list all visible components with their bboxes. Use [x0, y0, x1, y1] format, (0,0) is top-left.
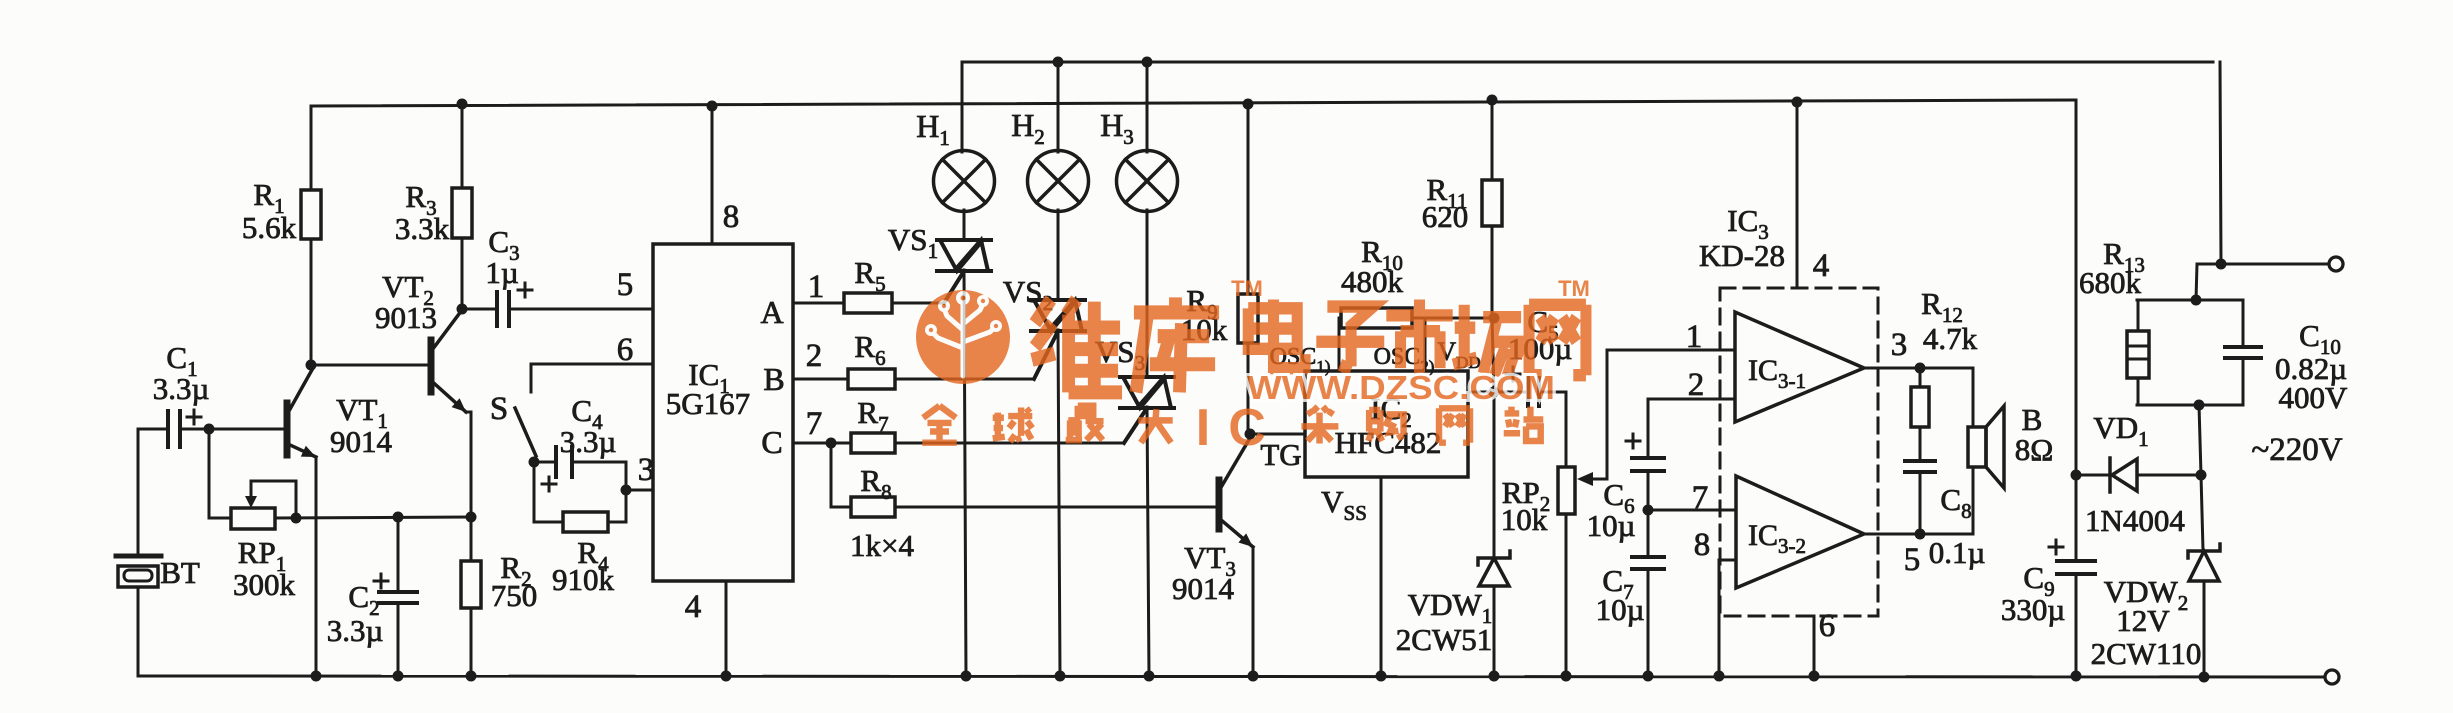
watermark char zi — [1316, 307, 1384, 370]
svg-text:1: 1 — [808, 269, 825, 305]
resistor R4 910k — [534, 512, 626, 532]
wire VDW2 top — [2201, 475, 2203, 550]
node H2 on AC rail — [1053, 57, 1064, 68]
wire VS1 to ground — [964, 270, 966, 676]
resistor R1 5.6k — [301, 106, 321, 365]
svg-text:7: 7 — [1692, 480, 1709, 516]
svg-text:TG: TG — [1260, 437, 1301, 472]
wire VS3 to ground — [1147, 407, 1149, 676]
svg-text:VS1: VS1 — [888, 222, 938, 263]
wire H3 to VS3 — [1146, 210, 1149, 377]
wire TG to IC2 — [1250, 433, 1305, 436]
resistor R8 — [831, 497, 1219, 517]
wire IC2 OSC1 stub — [1339, 318, 1341, 371]
node C2 top — [393, 512, 404, 523]
watermark char dian — [1248, 300, 1305, 369]
node pin7 branch — [826, 438, 837, 449]
node H3 on AC rail — [1142, 57, 1153, 68]
lamp H1 — [934, 151, 995, 212]
wire C4 left — [534, 461, 556, 464]
resistor R12 4.7k — [1911, 367, 1929, 461]
IC IC2 HFC482 box — [1305, 371, 1468, 477]
node VS2 ground — [1055, 671, 1066, 682]
capacitor C3 1u — [497, 283, 532, 326]
svg-text:1µ: 1µ — [485, 255, 518, 290]
wire C2 bottom — [397, 603, 400, 676]
wire IC3 pin8 to ground — [1719, 560, 1735, 676]
node R2 ground — [466, 671, 477, 682]
capacitor C7 10u — [1632, 557, 1664, 569]
svg-text:IC3-1: IC3-1 — [1748, 354, 1806, 393]
wire +12V riser — [2075, 100, 2078, 475]
wire IC2 OSC2 stub — [1424, 318, 1427, 371]
capacitor C4 3.3u — [542, 447, 572, 491]
wire VT1 collector node to VT2 base — [311, 364, 431, 367]
wire BT bottom to common rail — [137, 587, 140, 676]
watermark char wang2 — [1439, 408, 1470, 442]
wire VT2 collector to C3 — [462, 308, 497, 311]
resistor R13 680k — [2127, 300, 2149, 405]
lamp H3 — [1117, 151, 1178, 212]
IC IC3 KD-28 dashed box — [1720, 288, 1878, 616]
wire RP2 wiper to IC3 pin1 — [1607, 350, 1735, 479]
terminal AC bottom — [2325, 670, 2339, 684]
node VDW2 ground — [2199, 672, 2210, 683]
resistor R9 10k — [1238, 104, 1258, 434]
wire to top terminal — [2221, 263, 2329, 266]
svg-text:WWW.DZSC.COM: WWW.DZSC.COM — [1247, 369, 1555, 406]
wire AC rail down right — [2220, 62, 2221, 264]
wire pin3 output — [1864, 368, 1973, 427]
svg-text:750: 750 — [491, 578, 538, 613]
wire pin3 into IC1 — [626, 489, 653, 492]
capacitor C10 0.82u 400V — [2225, 347, 2261, 358]
watermark logo tree — [934, 305, 993, 376]
svg-text:C8: C8 — [1940, 482, 1971, 523]
svg-text:6: 6 — [617, 332, 634, 368]
node VT2 emitter R2 top — [466, 512, 477, 523]
svg-text:1k×4: 1k×4 — [850, 528, 914, 563]
wire C6 bottom to pin7 node — [1647, 471, 1650, 510]
node pin5 C8 — [1915, 529, 1926, 540]
svg-text:IC3-2: IC3-2 — [1748, 519, 1806, 558]
switch S — [515, 408, 536, 456]
node C6 C7 pin7 — [1643, 505, 1654, 516]
node R9 rail — [1243, 99, 1254, 110]
potentiometer RP2 10k — [1558, 467, 1607, 514]
watermark char quan — [922, 406, 956, 443]
wire BT top to C1 — [138, 429, 165, 556]
wire IC2 VSS to ground — [1380, 477, 1383, 676]
node R11 rail — [1487, 95, 1498, 106]
wire H1 drop from AC rail — [961, 62, 964, 152]
svg-text:5: 5 — [1904, 542, 1921, 578]
node R10 right on R11 line — [1489, 313, 1500, 324]
watermark logo disc — [916, 290, 1010, 384]
svg-text:4.7k: 4.7k — [1923, 321, 1978, 356]
terminal AC top — [2329, 257, 2343, 271]
svg-text:S: S — [490, 391, 508, 427]
capacitor C8 0.1u — [1905, 461, 1935, 472]
node RP1 wiper junction — [291, 513, 302, 524]
wire VD1 cathode to +12V line — [2076, 474, 2110, 477]
wire C7 top — [1647, 510, 1650, 557]
potentiometer RP1 — [231, 481, 296, 529]
svg-text:8Ω: 8Ω — [2015, 432, 2054, 467]
watermark char qiu — [993, 407, 1033, 441]
svg-text:VSS: VSS — [1321, 484, 1367, 525]
node IC1 pin8 rail — [707, 101, 718, 112]
svg-text:H3: H3 — [1100, 107, 1134, 149]
svg-text:3.3k: 3.3k — [395, 211, 450, 246]
wire VS2 to ground — [1058, 330, 1060, 676]
op-amp IC3-1 — [1735, 312, 1864, 422]
svg-text:7: 7 — [806, 406, 823, 442]
wire VT2 emitter down — [466, 412, 471, 517]
watermark char cai — [1301, 407, 1338, 444]
svg-text:I: I — [1196, 399, 1210, 457]
wire VT1 emitter to rail — [315, 457, 318, 676]
watermark char shi — [1386, 300, 1452, 377]
svg-text:10µ: 10µ — [1587, 508, 1636, 543]
svg-text:680k: 680k — [2079, 265, 2142, 300]
node VS3 ground — [1144, 671, 1155, 682]
node IC3 pin6 ground — [1809, 671, 1820, 682]
svg-text:12V: 12V — [2116, 603, 2170, 638]
svg-text:TM: TM — [1231, 276, 1263, 301]
wire IC1 pin6 to switch — [531, 364, 653, 392]
node C7 ground — [1643, 671, 1654, 682]
diode VD1 1N4004 — [2110, 458, 2137, 492]
svg-text:2CW51: 2CW51 — [1396, 622, 1492, 657]
svg-text:4: 4 — [1813, 248, 1830, 284]
wire IC3 pin4 to rail — [1796, 102, 1799, 288]
resistor R2 750 — [461, 517, 481, 676]
node dropper top — [2191, 295, 2202, 306]
svg-text:910k: 910k — [552, 562, 615, 597]
svg-text:10k: 10k — [1501, 502, 1548, 537]
triac VS3 — [1120, 377, 1174, 443]
node IC2 VSS ground — [1376, 671, 1387, 682]
triac VS1 — [937, 240, 991, 303]
node dropper bottom — [2194, 400, 2205, 411]
wire IC1 pin8 to rail — [711, 106, 714, 244]
svg-text:5.6k: 5.6k — [242, 210, 297, 245]
svg-text:BT: BT — [160, 555, 200, 590]
node VT1 base junction — [204, 424, 215, 435]
svg-text:0.1µ: 0.1µ — [1929, 535, 1986, 570]
wire C10 top — [2242, 300, 2245, 347]
svg-text:C: C — [1228, 399, 1266, 457]
resistor R10 480k — [1341, 308, 1494, 328]
op-amp IC3-2 — [1736, 476, 1864, 588]
node VS1 ground — [961, 671, 972, 682]
speaker B 8ohm — [1968, 406, 2004, 488]
resistor R11 620 — [1482, 100, 1502, 318]
zener VDW2 12V 2CW110 — [2188, 544, 2220, 581]
svg-text:8: 8 — [1694, 527, 1711, 563]
svg-text:C: C — [761, 424, 782, 460]
svg-text:2: 2 — [1688, 367, 1705, 403]
wire RP1 feedback line — [275, 517, 471, 518]
wire C9 top — [2075, 475, 2078, 561]
wire switch node down — [533, 462, 536, 522]
svg-text:4: 4 — [685, 589, 702, 625]
wire C8 to pin5 — [1919, 472, 1922, 534]
resistor R7 — [793, 433, 1124, 453]
wire VDW2 bottom — [2203, 581, 2206, 677]
svg-text:9014: 9014 — [330, 424, 393, 459]
wire RP2 bottom ground — [1565, 514, 1568, 676]
watermark char zhan — [1504, 407, 1544, 441]
svg-text:3.3µ: 3.3µ — [153, 371, 210, 406]
wire C10 bottom — [2242, 358, 2245, 405]
svg-text:400V: 400V — [2279, 380, 2349, 415]
lamp H2 — [1028, 151, 1089, 212]
node C2 ground — [393, 671, 404, 682]
wire VDD to C5 — [1494, 391, 1528, 394]
wire C3 to IC1 pin5 — [509, 308, 653, 311]
wire IC3 pin2 line — [1648, 399, 1735, 458]
wire C4 right to pin3 node — [572, 462, 626, 490]
node pin8 ground — [1714, 671, 1725, 682]
svg-text:3: 3 — [1891, 327, 1908, 363]
capacitor C6 10u — [1626, 434, 1664, 471]
watermark char zui — [1066, 406, 1104, 440]
watermark char da — [1138, 409, 1172, 443]
wire pin7 down to R8 — [830, 443, 833, 507]
svg-text:R6: R6 — [854, 329, 885, 370]
zener VDW1 2CW51 — [1478, 551, 1510, 586]
capacitor C1 — [168, 410, 201, 447]
svg-text:8: 8 — [723, 199, 740, 235]
svg-text:1: 1 — [1686, 319, 1703, 355]
svg-text:2CW110: 2CW110 — [2091, 636, 2202, 671]
microphone BT — [116, 556, 161, 587]
node VT1 emitter ground — [311, 671, 322, 682]
capacitor C9 330u — [2049, 540, 2095, 574]
watermark char wei — [1032, 299, 1122, 392]
node R3 bottom VT2 collector — [457, 304, 468, 315]
wire IC1 pin4 to ground — [725, 581, 728, 676]
wire dropper to VD1 node — [2199, 405, 2201, 475]
wire VT3 emitter ground — [1252, 547, 1255, 674]
svg-text:300k: 300k — [233, 567, 296, 602]
svg-text:620: 620 — [1422, 199, 1469, 234]
svg-text:10µ: 10µ — [1596, 592, 1645, 627]
svg-text:3.3µ: 3.3µ — [560, 424, 617, 459]
watermark char gou — [1368, 410, 1403, 441]
svg-text:5: 5 — [617, 267, 634, 303]
svg-text:330µ: 330µ — [2001, 592, 2065, 627]
wire dropper top bar — [2137, 299, 2242, 302]
svg-text:H1: H1 — [916, 108, 950, 150]
wire bottom common rail — [141, 676, 2325, 677]
wire H3 drop — [1146, 62, 1149, 152]
node pin3 R12 — [1915, 363, 1926, 374]
wire pin7 line — [1648, 509, 1735, 512]
wire C9 bottom — [2075, 574, 2078, 676]
wire VDW1 to ground — [1493, 586, 1496, 676]
node TG junction — [1245, 429, 1256, 440]
capacitor C2 3.3u — [374, 574, 417, 603]
wire dropper bottom bar — [2137, 404, 2242, 407]
wire C1 to VT1 base — [180, 428, 287, 431]
svg-text:TM: TM — [1558, 276, 1590, 301]
svg-text:R5: R5 — [854, 255, 885, 296]
capacitor C5 100u — [1506, 367, 1539, 406]
node IC1 pin4 ground — [721, 671, 732, 682]
wire base node down to RP1 left — [209, 429, 231, 518]
triac VS2 — [1031, 300, 1085, 379]
svg-text:3.3µ: 3.3µ — [327, 613, 384, 648]
resistor R3 3.3k — [452, 104, 472, 309]
svg-text:~220V: ~220V — [2251, 432, 2342, 468]
wire top AC rail — [962, 61, 2213, 64]
node R3 top on rail — [457, 99, 468, 110]
svg-text:R8: R8 — [860, 463, 891, 504]
node VT3 emitter ground — [1248, 671, 1259, 682]
resistor R5 — [793, 293, 944, 313]
wire H2 to VS2 — [1057, 210, 1060, 300]
svg-text:VD1: VD1 — [2093, 410, 2148, 451]
node VT1 collector — [306, 360, 317, 371]
node switch bottom — [529, 457, 540, 468]
wire R11 line down — [1492, 318, 1494, 556]
node C9 ground — [2071, 671, 2082, 682]
svg-text:3: 3 — [638, 452, 655, 488]
transistor VT3 9014 — [1219, 438, 1253, 547]
transistor VT1 9014 — [287, 368, 316, 457]
node IC3 pin4 rail — [1792, 97, 1803, 108]
wire C7 bottom ground — [1647, 569, 1650, 676]
svg-text:KD-28: KD-28 — [1699, 238, 1785, 273]
node IC1 pin3 — [621, 485, 632, 496]
svg-text:B: B — [763, 361, 784, 397]
node RP2 ground — [1561, 671, 1572, 682]
wire H2 drop — [1057, 62, 1060, 152]
node VDW1 ground — [1489, 671, 1500, 682]
wire VD1 anode — [2137, 474, 2201, 477]
svg-text:2: 2 — [806, 338, 823, 374]
wire pin5 output — [1864, 467, 1973, 534]
node VDD junction — [1489, 387, 1500, 398]
node +12V C9 — [2071, 470, 2082, 481]
wire H1 to VS1 — [963, 210, 966, 240]
wire IC2 VDD out — [1468, 391, 1494, 394]
wire C5 to RP2 — [1539, 392, 1566, 467]
wire down to dropper top — [2196, 264, 2221, 300]
wire IC3 pin6 ground — [1813, 616, 1816, 676]
svg-text:A: A — [760, 294, 783, 330]
watermark char wang — [1529, 305, 1586, 375]
watermark char ku — [1134, 297, 1219, 392]
wire C2 top — [397, 517, 400, 592]
wire R4 right up — [625, 490, 628, 522]
svg-text:6: 6 — [1819, 608, 1836, 644]
wire +12V rail — [311, 100, 2076, 106]
resistor R6 — [793, 369, 1034, 389]
svg-text:9013: 9013 — [375, 300, 437, 335]
transistor VT2 9013 — [431, 310, 466, 412]
node AC terminal branch — [2216, 259, 2227, 270]
svg-text:480k: 480k — [1341, 264, 1404, 299]
svg-text:H2: H2 — [1011, 107, 1045, 149]
node VD1 cathode junction — [2196, 470, 2207, 481]
svg-text:R7: R7 — [857, 395, 888, 436]
op-amp IC1 5G167 box — [653, 244, 793, 581]
watermark char chang — [1453, 305, 1523, 377]
svg-text:9014: 9014 — [1172, 571, 1235, 606]
svg-text:5G167: 5G167 — [666, 386, 750, 421]
svg-text:1N4004: 1N4004 — [2085, 503, 2185, 538]
